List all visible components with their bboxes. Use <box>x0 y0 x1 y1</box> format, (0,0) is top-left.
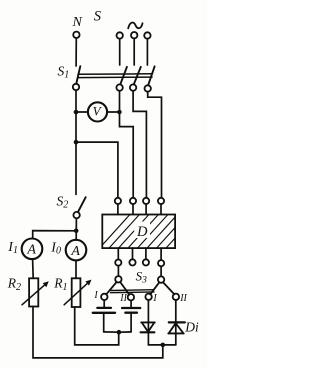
terminal phase A <box>117 32 123 38</box>
svg-text:R2: R2 <box>7 276 21 294</box>
svg-text:S3: S3 <box>136 269 148 286</box>
svg-text:S1: S1 <box>58 64 70 81</box>
S3 pole1 common <box>115 276 121 282</box>
wire S2 to I0 <box>75 218 77 240</box>
D output terminal 1 <box>115 260 121 266</box>
svg-text:II: II <box>179 293 187 304</box>
svg-text:I: I <box>152 293 157 304</box>
S3 contact pole2-II <box>173 294 179 300</box>
wire voltmeter right <box>107 111 119 113</box>
wire contact I to capacitor C1 <box>103 300 105 307</box>
S3 pole1 blade I <box>106 282 116 294</box>
diode D1 (cathode down) <box>141 321 155 323</box>
wire phase C to S1 <box>146 39 148 65</box>
S3 contact pole1-II <box>128 294 134 300</box>
node voltmeter left <box>74 110 79 115</box>
terminal phase B <box>131 32 137 38</box>
svg-text:II: II <box>119 293 127 304</box>
switch S1 blade pole A <box>120 67 127 84</box>
rheostat R1 <box>72 278 81 307</box>
diode D2 (cathode up) <box>169 321 185 323</box>
wire N terminal to S1 <box>75 38 77 66</box>
terminal phase C <box>144 32 150 38</box>
D input terminal 1 <box>115 198 121 204</box>
S3 gang bar <box>111 289 155 292</box>
wire diode common <box>148 344 175 346</box>
S1 contact A <box>116 84 122 90</box>
wire S3 pole1 <box>117 266 119 276</box>
svg-text:N: N <box>72 15 83 30</box>
S3 pole2 blade II <box>163 282 174 294</box>
S3 pole1 blade II <box>120 282 129 295</box>
D output terminal 4 <box>158 260 164 266</box>
D output terminal 3 <box>143 259 149 265</box>
D input terminal 3 <box>143 198 149 204</box>
wire R1 to capacitor common <box>75 307 119 345</box>
wire R2 to bottom bus <box>33 307 163 358</box>
rheostat R2 <box>29 278 38 306</box>
S3 contact pole1-I <box>101 294 107 300</box>
wire phase A to S1 <box>119 39 121 65</box>
node voltmeter right <box>117 110 122 115</box>
S3 pole2 blade I <box>150 282 159 294</box>
svg-text:Di: Di <box>184 319 199 334</box>
switch S1 blade pole N <box>76 66 80 83</box>
D output terminal 2 <box>129 259 135 265</box>
switch S1 gang bar <box>78 73 152 76</box>
node N branch <box>74 140 79 145</box>
wire S3 pole2 <box>160 266 162 276</box>
svg-text:R1: R1 <box>53 276 67 294</box>
D input terminal 2 <box>130 198 136 204</box>
wire voltmeter left <box>76 111 88 113</box>
svg-text:I1: I1 <box>7 240 18 256</box>
switch S1 blade pole C <box>148 66 154 84</box>
wire I0 to R1 <box>75 260 77 278</box>
capacitor C2 <box>122 307 140 309</box>
node diode common <box>161 343 166 348</box>
S1 contact C <box>145 85 151 91</box>
stubs terminals to D box <box>117 204 119 214</box>
wire junction to I1 <box>33 231 76 239</box>
svg-text:V: V <box>93 104 103 119</box>
wire N line down to S2 <box>75 90 77 194</box>
svg-text:I: I <box>93 290 98 301</box>
D input terminal 4 <box>158 198 164 204</box>
wire phase B to S1 <box>133 39 135 65</box>
wire contact II to diode D2 <box>175 300 177 345</box>
svg-text:S: S <box>94 9 102 25</box>
S1 contact B <box>130 84 136 90</box>
node ammeter junction <box>74 229 79 234</box>
capacitor C1 <box>97 307 111 309</box>
svg-text:S2: S2 <box>57 193 69 210</box>
node capacitor common <box>117 330 122 335</box>
ammeter I0 <box>66 240 87 261</box>
wire capacitor common <box>104 331 131 333</box>
voltmeter V <box>88 102 107 121</box>
ammeter I1 <box>22 239 43 260</box>
switch S1 blade pole B <box>134 67 141 84</box>
svg-text:I0: I0 <box>50 240 61 256</box>
wire phase B jog <box>133 91 146 198</box>
wire contact II to capacitor C2 <box>130 300 132 307</box>
wire contact I to diode D1 <box>147 300 149 345</box>
switch S2 blade <box>78 197 86 212</box>
terminal N <box>73 32 79 38</box>
svg-text:A: A <box>26 243 36 258</box>
S3 contact pole2-I <box>145 294 151 300</box>
S1 contact N <box>73 84 79 90</box>
wire phase C jog <box>148 92 162 198</box>
S2 contact <box>73 212 79 218</box>
svg-text:A: A <box>70 244 80 259</box>
S3 pole2 common <box>158 276 164 282</box>
wire I1 to R2 <box>32 259 35 278</box>
wire phase A jog <box>120 91 134 198</box>
AC tilde symbol <box>128 23 142 29</box>
stubs D box to output terminals <box>117 248 119 259</box>
svg-text:D: D <box>136 224 148 240</box>
wire N branch to D <box>76 142 118 198</box>
